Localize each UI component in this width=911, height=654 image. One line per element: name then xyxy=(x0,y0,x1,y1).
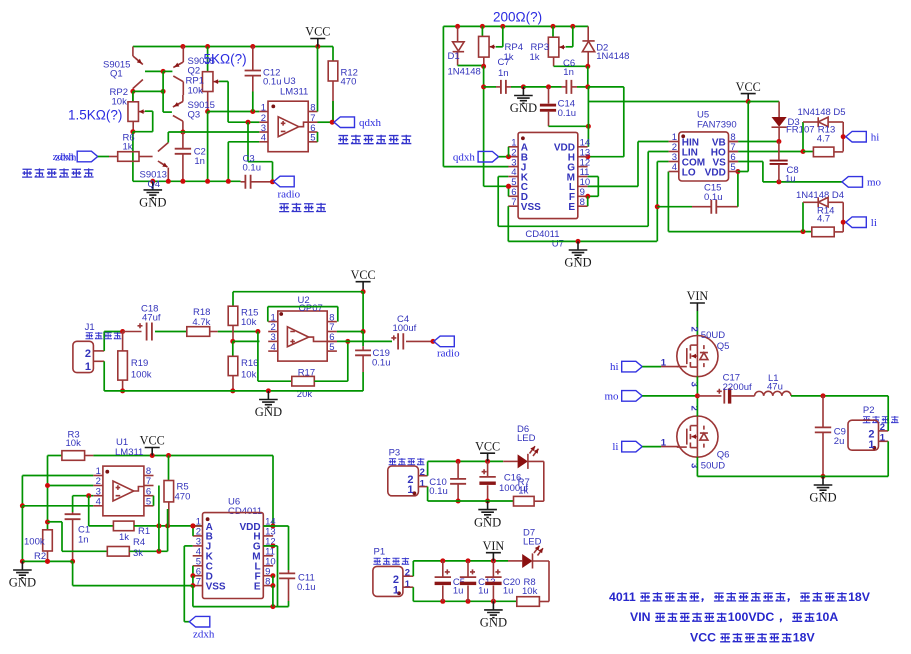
svg-text:0.1u: 0.1u xyxy=(704,192,723,203)
svg-text:1u: 1u xyxy=(785,174,796,185)
svg-text:Q1: Q1 xyxy=(110,69,123,80)
svg-text:4: 4 xyxy=(672,162,677,173)
svg-text:P1: P1 xyxy=(374,546,386,557)
svg-text:radio: radio xyxy=(278,189,301,201)
svg-text:LED: LED xyxy=(517,433,536,444)
svg-text:zdxh: zdxh xyxy=(193,629,215,641)
svg-text:FAN7390: FAN7390 xyxy=(697,120,737,131)
svg-text:1: 1 xyxy=(405,579,411,590)
svg-text:VCC: VCC xyxy=(475,439,500,453)
svg-text:LO: LO xyxy=(682,167,696,178)
svg-text:2: 2 xyxy=(85,348,91,360)
svg-text:E: E xyxy=(568,202,575,213)
svg-text:8: 8 xyxy=(265,576,270,587)
svg-text:100k: 100k xyxy=(131,370,152,381)
svg-text:1.5KΩ(?): 1.5KΩ(?) xyxy=(68,108,122,123)
svg-text:GND: GND xyxy=(809,491,836,505)
svg-text:0.1u: 0.1u xyxy=(297,582,316,593)
svg-text:OP07: OP07 xyxy=(299,303,323,314)
svg-text:18V: 18V xyxy=(848,590,871,604)
svg-text:1k: 1k xyxy=(518,485,528,496)
svg-text:GND: GND xyxy=(480,616,507,630)
svg-text:100VDC: 100VDC xyxy=(728,610,775,624)
svg-text:0.1u: 0.1u xyxy=(558,108,577,119)
svg-text:10k: 10k xyxy=(188,85,204,96)
svg-text:mo: mo xyxy=(604,391,619,403)
svg-text:U7: U7 xyxy=(552,238,564,249)
svg-text:VCC: VCC xyxy=(736,80,761,94)
svg-text:47uf: 47uf xyxy=(142,313,161,324)
svg-text:li: li xyxy=(612,441,618,453)
svg-text:zdxh: zdxh xyxy=(55,152,77,164)
svg-text:3k: 3k xyxy=(133,548,143,559)
svg-text:LED: LED xyxy=(523,537,542,548)
svg-text:0.1u: 0.1u xyxy=(243,163,262,174)
svg-text:1n: 1n xyxy=(78,534,89,545)
svg-text:10k: 10k xyxy=(66,438,82,449)
svg-text:1N4148: 1N4148 xyxy=(596,51,629,62)
svg-text:VDD: VDD xyxy=(705,167,726,178)
svg-text:1: 1 xyxy=(261,102,266,113)
svg-text:VCC: VCC xyxy=(351,268,376,282)
svg-text:8: 8 xyxy=(310,102,315,113)
svg-text:5: 5 xyxy=(146,497,151,508)
svg-text:10k: 10k xyxy=(241,370,257,381)
svg-text:C7: C7 xyxy=(498,57,510,68)
svg-text:1: 1 xyxy=(420,478,426,489)
svg-text:R16: R16 xyxy=(241,358,258,369)
svg-text:J1: J1 xyxy=(85,322,95,333)
svg-text:1k: 1k xyxy=(530,52,540,63)
svg-text:1k: 1k xyxy=(123,142,133,153)
svg-text:1: 1 xyxy=(85,361,91,373)
svg-text:10k: 10k xyxy=(522,586,538,597)
svg-text:Q4: Q4 xyxy=(148,179,161,190)
svg-text:5KΩ(?): 5KΩ(?) xyxy=(204,52,247,67)
svg-text:4: 4 xyxy=(271,342,276,353)
svg-text:470: 470 xyxy=(341,77,357,88)
svg-text:R17: R17 xyxy=(298,367,315,378)
svg-text:VCC: VCC xyxy=(690,631,716,645)
svg-text:Q5: Q5 xyxy=(717,341,730,352)
svg-text:qdxh: qdxh xyxy=(359,117,382,129)
svg-text:R4: R4 xyxy=(133,537,145,548)
svg-text:Q6: Q6 xyxy=(717,450,730,461)
svg-text:50UD: 50UD xyxy=(701,330,725,341)
svg-text:LM311: LM311 xyxy=(115,447,143,458)
svg-text:470: 470 xyxy=(175,492,191,503)
svg-text:200Ω(?): 200Ω(?) xyxy=(493,9,542,24)
svg-text:VSS: VSS xyxy=(206,581,226,592)
svg-text:VCC: VCC xyxy=(305,25,330,39)
svg-text:10k: 10k xyxy=(241,317,257,328)
svg-text:5: 5 xyxy=(730,162,735,173)
svg-text:GND: GND xyxy=(139,196,166,210)
svg-text:P3: P3 xyxy=(389,447,401,458)
svg-text:7: 7 xyxy=(196,576,201,587)
svg-text:U3: U3 xyxy=(284,76,296,87)
svg-text:0.1u: 0.1u xyxy=(263,77,282,88)
svg-text:0.1u: 0.1u xyxy=(372,357,391,368)
svg-text:4.7k: 4.7k xyxy=(192,317,210,328)
svg-text:1N4148 D5: 1N4148 D5 xyxy=(798,107,846,118)
svg-text:8: 8 xyxy=(580,197,585,208)
svg-text:GND: GND xyxy=(9,576,36,590)
svg-text:E: E xyxy=(254,581,261,592)
svg-text:radio: radio xyxy=(437,347,460,359)
svg-text:4: 4 xyxy=(261,133,266,144)
svg-text:100uf: 100uf xyxy=(393,323,417,334)
svg-text:hi: hi xyxy=(871,131,880,143)
svg-text:1N4148: 1N4148 xyxy=(448,66,481,77)
svg-text:7: 7 xyxy=(511,197,516,208)
svg-text:1: 1 xyxy=(868,439,874,451)
svg-text:FR107: FR107 xyxy=(786,124,815,135)
svg-text:1: 1 xyxy=(407,484,413,496)
svg-text:R19: R19 xyxy=(131,358,148,369)
svg-text:18V: 18V xyxy=(793,631,816,645)
svg-text:1: 1 xyxy=(393,585,399,597)
svg-text:GND: GND xyxy=(255,405,282,419)
svg-text:Q3: Q3 xyxy=(188,109,201,120)
svg-text:4.7: 4.7 xyxy=(817,214,830,225)
svg-text:D1: D1 xyxy=(448,51,460,62)
svg-text:1n: 1n xyxy=(498,68,509,79)
svg-text:10k: 10k xyxy=(112,96,128,107)
svg-text:4: 4 xyxy=(96,497,101,508)
svg-text:5: 5 xyxy=(329,342,334,353)
svg-text:GND: GND xyxy=(474,515,501,529)
svg-text:P2: P2 xyxy=(863,405,875,416)
svg-text:50UD: 50UD xyxy=(701,461,725,472)
svg-text:100k: 100k xyxy=(24,536,45,547)
svg-text:qdxh: qdxh xyxy=(453,151,476,163)
svg-text:VIN: VIN xyxy=(630,610,651,624)
svg-text:1n: 1n xyxy=(194,156,205,167)
svg-text:10A: 10A xyxy=(816,610,839,624)
svg-text:0.1u: 0.1u xyxy=(429,486,448,497)
svg-text:li: li xyxy=(871,217,877,229)
svg-text:1u: 1u xyxy=(453,585,464,596)
svg-text:1u: 1u xyxy=(478,585,489,596)
svg-text:4011: 4011 xyxy=(609,590,636,604)
svg-text:5: 5 xyxy=(310,133,315,144)
svg-text:R2: R2 xyxy=(34,551,46,562)
svg-text:CD4011: CD4011 xyxy=(228,506,262,517)
svg-text:VSS: VSS xyxy=(521,202,541,213)
svg-text:1N4148 D4: 1N4148 D4 xyxy=(796,190,844,201)
svg-text:hi: hi xyxy=(610,361,619,373)
svg-text:GND: GND xyxy=(564,256,591,270)
svg-text:R1: R1 xyxy=(138,526,150,537)
svg-text:LM311: LM311 xyxy=(280,86,308,97)
svg-text:2: 2 xyxy=(688,327,699,332)
svg-text:1n: 1n xyxy=(563,67,574,78)
svg-text:4.7: 4.7 xyxy=(817,134,830,145)
svg-text:VCC: VCC xyxy=(140,434,165,448)
svg-text:2200uf: 2200uf xyxy=(723,382,752,393)
svg-text:2u: 2u xyxy=(834,436,845,447)
svg-text:mo: mo xyxy=(867,177,882,189)
svg-text:GND: GND xyxy=(510,101,537,115)
svg-text:VIN: VIN xyxy=(687,289,709,303)
svg-text:1u: 1u xyxy=(503,585,514,596)
svg-text:1k: 1k xyxy=(119,532,129,543)
svg-text:47u: 47u xyxy=(767,382,783,393)
svg-text:VIN: VIN xyxy=(483,539,505,553)
